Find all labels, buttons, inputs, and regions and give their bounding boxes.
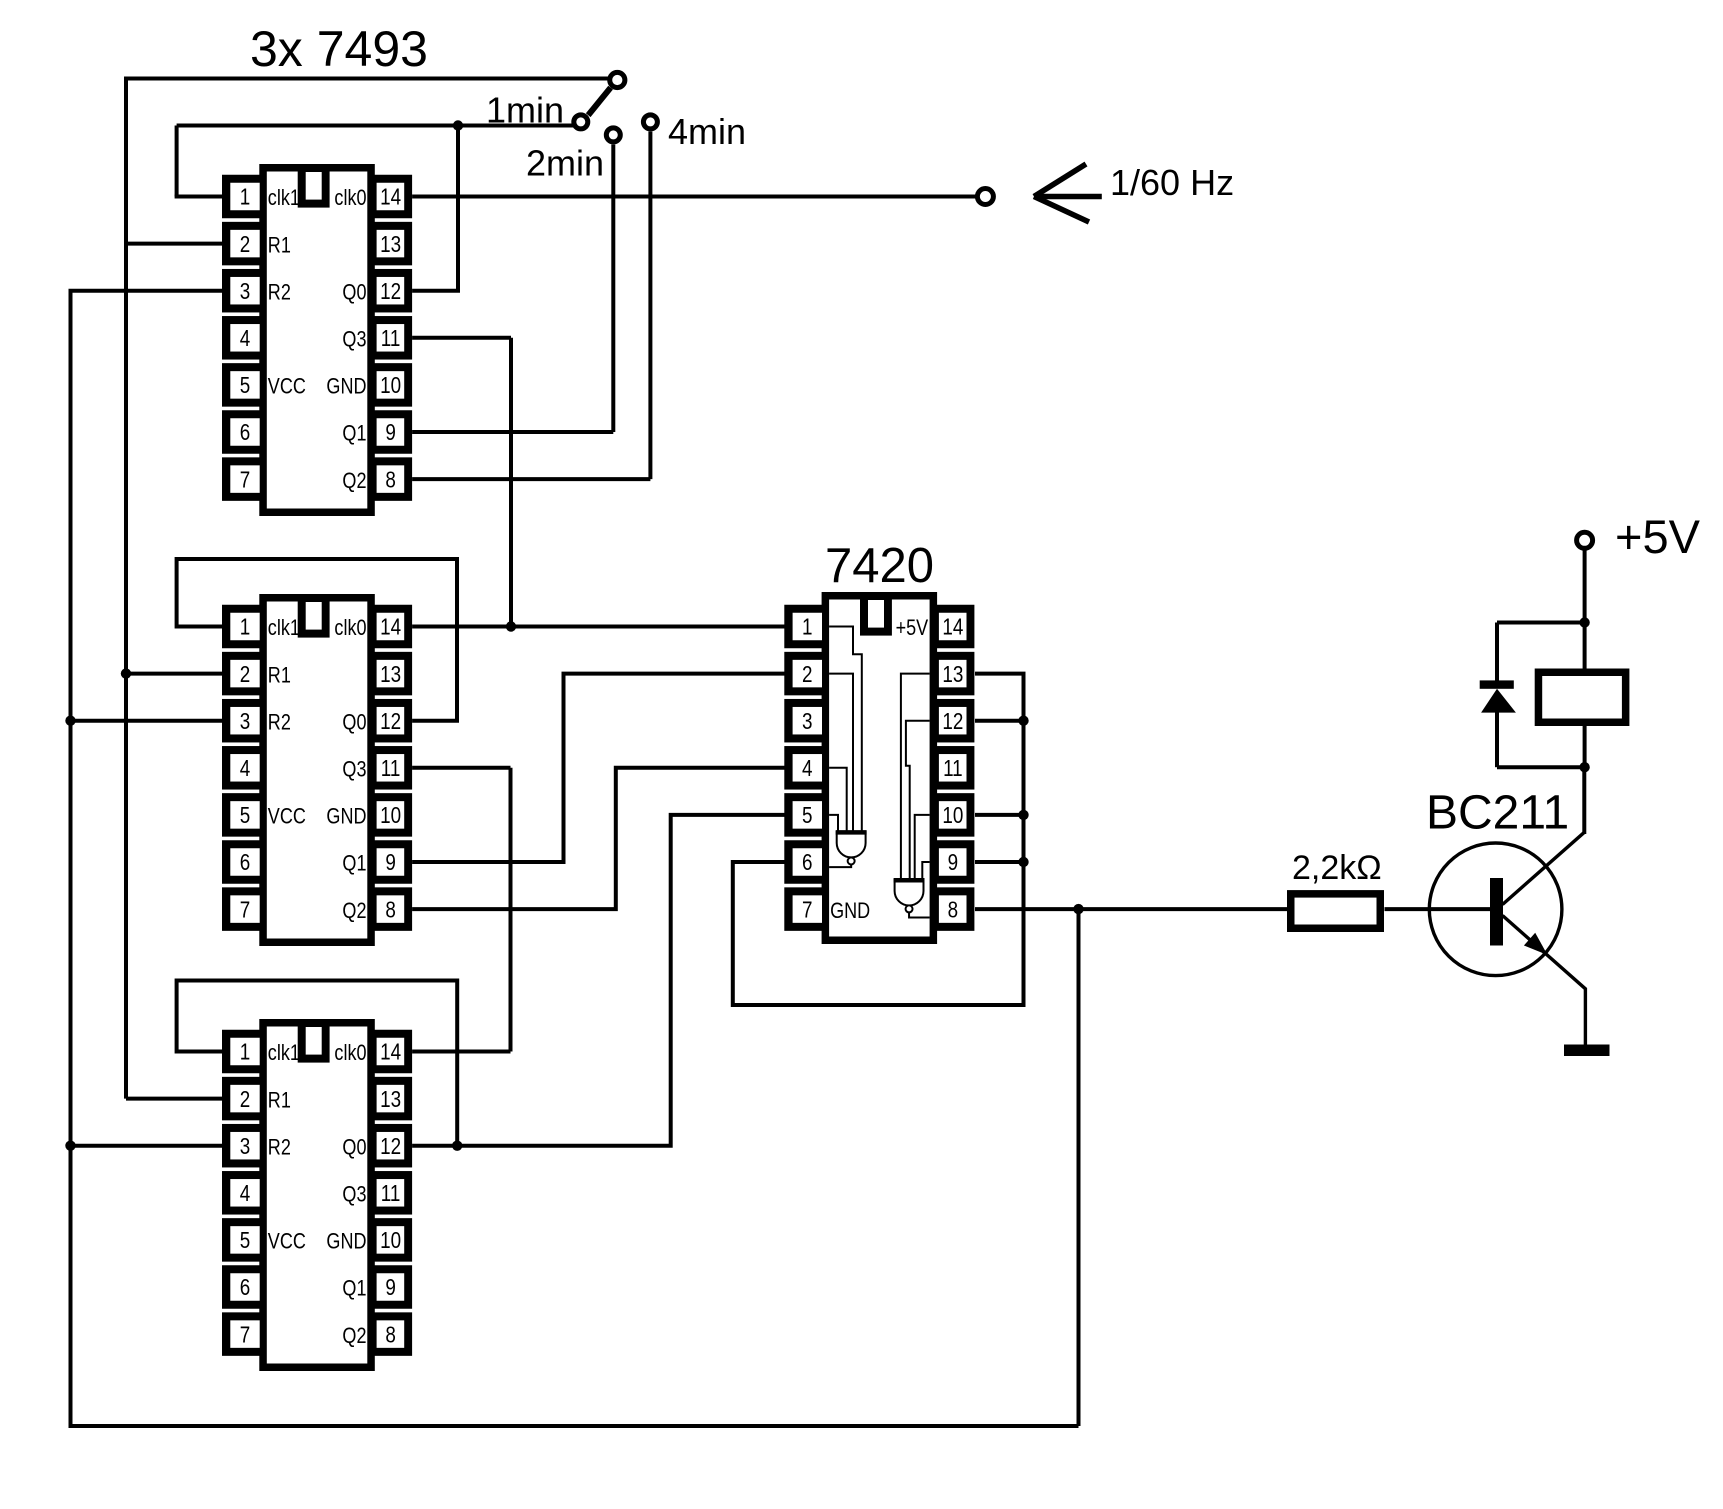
IC U1 pin 7 box [222,457,260,501]
svg-text:7: 7 [240,1323,250,1348]
wire: 2min vertical riser [611,145,615,433]
junction dot: IC3 Q0 node [452,1141,462,1151]
svg-text:VCC: VCC [268,375,306,399]
svg-text:R1: R1 [268,1089,291,1113]
svg-text:Q1: Q1 [342,422,366,446]
IC U3 pin 4 box [222,1171,260,1215]
diode D1 triangle (pointing up) [1481,689,1516,713]
wire: bottom feedback horizontal (NAND output to reset net) [69,1424,1079,1428]
wire: IC2 pin11 Q3 stub [412,766,510,770]
IC U2 pin 7 box [222,887,260,931]
svg-text:Q1: Q1 [342,852,366,876]
svg-text:clk0: clk0 [334,187,366,211]
svg-text:5: 5 [240,803,250,828]
wire: IC2 pin3 R2 stub [71,719,223,723]
svg-text:2: 2 [802,662,812,687]
junction dot: 7420 pin9 tie [1018,857,1028,867]
svg-text:VCC: VCC [268,1230,306,1254]
IC U2 pin 14 box [374,605,412,649]
svg-text:clk1: clk1 [268,617,300,641]
wire: IC1 pin9 Q1 stub to 2min riser [412,430,613,434]
IC U3 pin-1 end notch [298,1019,330,1063]
IC U4 pin-1 end notch [860,592,892,636]
gate U4b output wire to pin8 [909,912,930,917]
IC U4 pin 8 box [936,887,974,931]
svg-text:8: 8 [385,898,395,923]
junction dot: 7420 pin10 tie [1018,810,1028,820]
svg-text:13: 13 [380,232,401,257]
svg-text:2: 2 [240,662,250,687]
svg-text:1: 1 [240,615,250,640]
svg-text:4min: 4min [668,111,746,152]
wire: IC2 clk1-Q0 loop (pin12 to pin1) [177,559,457,721]
svg-text:4: 4 [802,756,813,781]
svg-text:14: 14 [380,1040,401,1065]
svg-text:12: 12 [380,1134,401,1159]
svg-text:10: 10 [942,803,963,828]
wire: IC1 pin1 clk1 stub [175,195,222,199]
svg-text:3: 3 [240,709,250,734]
gate U4b input wire pin12 [906,721,930,880]
IC U2 pin 13 box [374,652,412,696]
svg-text:clk0: clk0 [334,617,366,641]
IC U3 pin 6 box [222,1265,260,1309]
svg-text:6: 6 [240,421,250,446]
svg-text:1min: 1min [486,90,564,131]
IC U1 pin 14 box [374,175,412,219]
wire: IC1 pin12 Q0 stub [412,289,460,293]
wire: IC1 pin14 clk0 to 1/60Hz input terminal [412,195,977,199]
wire: diode branch left vertical upper [1495,623,1499,683]
svg-text:6: 6 [802,851,812,876]
IC U1 body outline [259,164,375,516]
wire: IC3 pin12 Q0 stub [412,1144,457,1148]
IC U1 pin 1 box [222,175,260,219]
svg-text:1: 1 [240,1040,250,1065]
wire: 7420 pin10 tie stub [975,813,1024,817]
IC U4 pin 2 box [784,652,822,696]
svg-text:7420: 7420 [825,539,934,593]
IC U1 pin 11 box [374,316,412,360]
wire: IC3 pin3 R2 stub [71,1144,223,1148]
IC U2 pin 6 box [222,840,260,884]
svg-text:14: 14 [380,615,401,640]
wire: IC3 pin14 clk0 stub [412,1050,510,1054]
wire: net R2 - left vertical (IC1/IC2/IC3 pin3 to bottom feedback) [69,291,73,1426]
svg-text:R2: R2 [268,1136,291,1160]
svg-text:GND: GND [326,1230,366,1254]
switch S1 pole terminal 1min [574,115,588,129]
gate U4a input wire pin4 [829,768,847,832]
gate U4a input wire pin5 [829,815,838,832]
wire: 7420 pin13 input tie stub [733,674,1024,1005]
IC U2 pin 12 box [374,699,412,743]
IC U1 pin-1 end notch [298,164,330,208]
junction dot: relay/diode top node [1579,617,1589,627]
IC U4 pin 10 box [936,793,974,837]
IC U1 pin 8 box [374,457,412,501]
svg-text:R1: R1 [268,664,291,688]
svg-text:GND: GND [830,899,870,923]
IC U4 pin 1 box [784,605,822,649]
IC U3 body outline [259,1019,375,1371]
switch terminal 4min [643,115,657,129]
IC U2 pin 3 box [222,699,260,743]
IC U1 pin 10 box [374,363,412,407]
IC U2 pin 11 box [374,746,412,790]
svg-text:4: 4 [240,1181,251,1206]
svg-text:2: 2 [240,1087,250,1112]
svg-text:10: 10 [380,1228,401,1253]
wire: net R1 - top horizontal from left riser to switch top terminal [124,77,609,81]
wire: IC2 pin2 R1 stub [126,672,222,676]
wire: IC1 Q3 vertical down to IC2 clk0 net [509,338,513,627]
IC U4 pin 12 box [936,699,974,743]
switch terminal 2min [606,128,620,142]
IC U3 pin 13 box [374,1077,412,1121]
IC U1 pin 9 box [374,410,412,454]
op gate U4a NAND body (points down) [837,832,866,858]
svg-text:9: 9 [385,1276,395,1301]
switch S1 top terminal (to R1 net) [610,72,625,87]
wire: net 1min - horizontal from IC1 clk1 riser to switch pole [177,124,573,128]
gate U4a output wire to pin6 [829,865,851,868]
svg-text:5: 5 [240,373,250,398]
svg-text:3: 3 [240,1134,250,1159]
svg-text:12: 12 [380,709,401,734]
wire: 4min vertical riser [648,132,652,480]
svg-text:8: 8 [385,468,395,493]
svg-text:3: 3 [240,279,250,304]
junction dot: 1min net / IC1 Q0 riser [453,120,463,130]
IC U4 pin 3 box [784,699,822,743]
svg-text:GND: GND [326,375,366,399]
IC U2 pin-1 end notch [298,594,330,638]
wire: IC2 pin9 Q1 to 7420 pin2 (dogleg) [412,674,784,862]
wire: diode branch top [1497,621,1585,625]
svg-text:9: 9 [385,421,395,446]
wire: IC1 pin8 Q2 stub to 4min riser [412,477,650,481]
svg-text:clk1: clk1 [268,187,300,211]
wire: +5V down to relay [1583,549,1587,673]
svg-text:14: 14 [380,185,401,210]
svg-text:9: 9 [948,851,958,876]
IC U4 body outline [822,592,938,944]
transistor Q1 base bar [1490,878,1503,946]
gate U4a output bubble [848,858,855,865]
IC U2 pin 2 box [222,652,260,696]
IC U4 pin 14 box [936,605,974,649]
IC U3 pin 10 box [374,1218,412,1262]
svg-text:12: 12 [380,279,401,304]
gate U4a input wire pin2 [829,674,853,832]
IC U2 pin 9 box [374,840,412,884]
resistor R 2.2k body [1291,894,1381,928]
IC U2 pin 10 box [374,793,412,837]
svg-text:clk0: clk0 [334,1042,366,1066]
wire: feedback vertical riser to 7420 pin8 output [1077,909,1081,1426]
power +5V terminal circle [1577,532,1593,548]
gate U4a input wire pin1 [829,627,862,833]
IC U3 pin 9 box [374,1265,412,1309]
IC U1 pin 3 box [222,269,260,313]
svg-text:Q3: Q3 [342,328,366,352]
IC U3 pin 12 box [374,1124,412,1168]
svg-text:8: 8 [948,898,958,923]
IC U2 pin 8 box [374,887,412,931]
wire: relay bottom to collector node [1583,722,1587,767]
transistor Q1 emitter lead [1503,916,1586,1046]
svg-text:Q0: Q0 [342,281,366,305]
svg-text:Q3: Q3 [342,758,366,782]
wire: IC3 pin2 R1 stub [126,1097,222,1101]
IC U4 pin 5 box [784,793,822,837]
svg-text:Q2: Q2 [342,899,366,923]
wire: net R1 - left vertical riser (IC1/IC2/IC3 pin2) [124,79,128,1099]
IC U4 pin 4 box [784,746,822,790]
gate U4b output bubble [906,905,913,912]
IC U2 pin 1 box [222,605,260,649]
wire: 7420 pin9 tie stub [975,860,1024,864]
input terminal: 1/60 Hz open circle [977,189,993,205]
transistor Q1 collector lead [1503,767,1585,904]
svg-text:10: 10 [380,373,401,398]
transistor Q1 emitter arrow [1524,933,1548,955]
IC U4 pin 11 box [936,746,974,790]
svg-text:2: 2 [240,232,250,257]
svg-text:4: 4 [240,326,251,351]
IC U2 pin 4 box [222,746,260,790]
diode D1 cathode bar [1480,680,1514,688]
wire: collector node down [1582,767,1586,834]
IC U3 pin 11 box [374,1171,412,1215]
junction dot: relay/diode bottom node [1579,762,1589,772]
svg-text:Q3: Q3 [342,1183,366,1207]
svg-text:GND: GND [326,805,366,829]
svg-text:Q2: Q2 [342,1324,366,1348]
wire: resistor to transistor base [1385,907,1491,911]
svg-text:6: 6 [240,1276,250,1301]
IC U3 pin 1 box [222,1030,260,1074]
svg-text:5: 5 [240,1228,250,1253]
svg-text:Q2: Q2 [342,469,366,493]
svg-text:9: 9 [385,851,395,876]
svg-text:11: 11 [943,756,963,781]
gate U4b input wire pin13 [901,674,930,880]
svg-text:+5V: +5V [896,617,929,641]
svg-text:11: 11 [381,756,401,781]
wire: diode branch left vertical lower [1495,710,1499,767]
svg-text:6: 6 [240,851,250,876]
svg-text:1/60 Hz: 1/60 Hz [1110,162,1234,203]
svg-text:7: 7 [240,898,250,923]
gate U4b NAND body (points down) [895,880,924,906]
svg-text:14: 14 [942,615,963,640]
IC U2 pin 5 box [222,793,260,837]
svg-text:R2: R2 [268,281,291,305]
svg-text:3: 3 [802,709,812,734]
wire: IC1 pin11 Q3 stub [412,336,511,340]
IC U4 pin 13 box [936,652,974,696]
svg-text:R2: R2 [268,711,291,735]
IC U1 pin 12 box [374,269,412,313]
svg-text:7: 7 [240,468,250,493]
IC U3 pin 5 box [222,1218,260,1262]
gate U4b input wire pin9 [922,862,929,880]
IC U1 pin 6 box [222,410,260,454]
IC U3 pin 7 box [222,1312,260,1356]
svg-text:5: 5 [802,803,812,828]
svg-text:11: 11 [381,1181,401,1206]
svg-text:8: 8 [385,1323,395,1348]
junction dot: R1 net at IC2 pin2 [121,668,131,678]
IC U4 pin 6 box [784,840,822,884]
svg-text:Q1: Q1 [342,1277,366,1301]
wire: IC1 pin2 R1 stub [126,242,222,246]
wire: 7420 pin12 tie stub [975,719,1024,723]
ground symbol (emitter) [1564,1045,1610,1057]
wire: IC1 pin12 Q0 riser vertical [456,126,460,291]
svg-text:Q0: Q0 [342,711,366,735]
IC U3 pin 14 box [374,1030,412,1074]
wire: IC3 clk1-Q0 loop (pin12 to pin1) [177,981,458,1146]
relay K1 coil box [1538,672,1625,722]
svg-text:1: 1 [802,615,812,640]
IC U4 pin 7 box [784,887,822,931]
svg-text:clk1: clk1 [268,1042,300,1066]
gate U4b input wire pin10 [915,815,930,880]
IC U1 pin 2 box [222,222,260,266]
wire: IC1 pin1 clk1 riser vertical [175,126,179,197]
junction dot: R2 net at IC2 pin3 [65,716,75,726]
svg-text:1: 1 [240,185,250,210]
svg-text:R1: R1 [268,234,291,258]
svg-text:VCC: VCC [268,805,306,829]
wire: IC1 pin3 R2 stub [69,289,223,293]
wire: IC2 pin8 Q2 to 7420 pin4 (dogleg) [412,768,784,909]
IC U1 pin 13 box [374,222,412,266]
junction dot: 7420 pin12 tie [1018,716,1028,726]
transistor Q1 BC211 circle [1429,843,1562,976]
svg-text:13: 13 [380,1087,401,1112]
wire: IC2 Q3 vertical down to IC3 clk0 [509,768,513,1052]
input arrow symbol [1034,164,1102,222]
IC U4 pin 9 box [936,840,974,884]
svg-text:10: 10 [380,803,401,828]
junction dot: IC1 Q3 joins IC2 pin14 wire [506,621,516,631]
junction dot: NAND output / feedback node [1073,904,1083,914]
wire: IC2 pin14 clk0 to 7420 pin1 [412,625,784,629]
IC U1 pin 5 box [222,363,260,407]
IC U3 pin 3 box [222,1124,260,1168]
switch S1 lever (selector) [588,88,610,116]
svg-text:4: 4 [240,756,251,781]
junction dot: R2 net at IC3 pin3 [65,1141,75,1151]
svg-text:2,2kΩ: 2,2kΩ [1292,849,1382,887]
IC U3 pin 8 box [374,1312,412,1356]
svg-text:12: 12 [942,709,963,734]
svg-text:3x 7493: 3x 7493 [250,21,428,77]
IC U1 pin 4 box [222,316,260,360]
IC U2 body outline [259,594,375,946]
wire: 7420 pin8 NAND output to resistor [975,907,1287,911]
svg-text:13: 13 [380,662,401,687]
svg-text:2min: 2min [526,143,604,184]
svg-text:Q0: Q0 [342,1136,366,1160]
svg-text:7: 7 [802,898,812,923]
IC U3 pin 2 box [222,1077,260,1121]
svg-text:13: 13 [942,662,963,687]
svg-text:11: 11 [381,326,401,351]
svg-text:+5V: +5V [1615,510,1701,563]
wire: diode branch bottom [1497,765,1585,769]
svg-text:BC211: BC211 [1426,787,1569,840]
wire: IC3 Q0 to 7420 pin5 (dogleg) [457,815,784,1146]
